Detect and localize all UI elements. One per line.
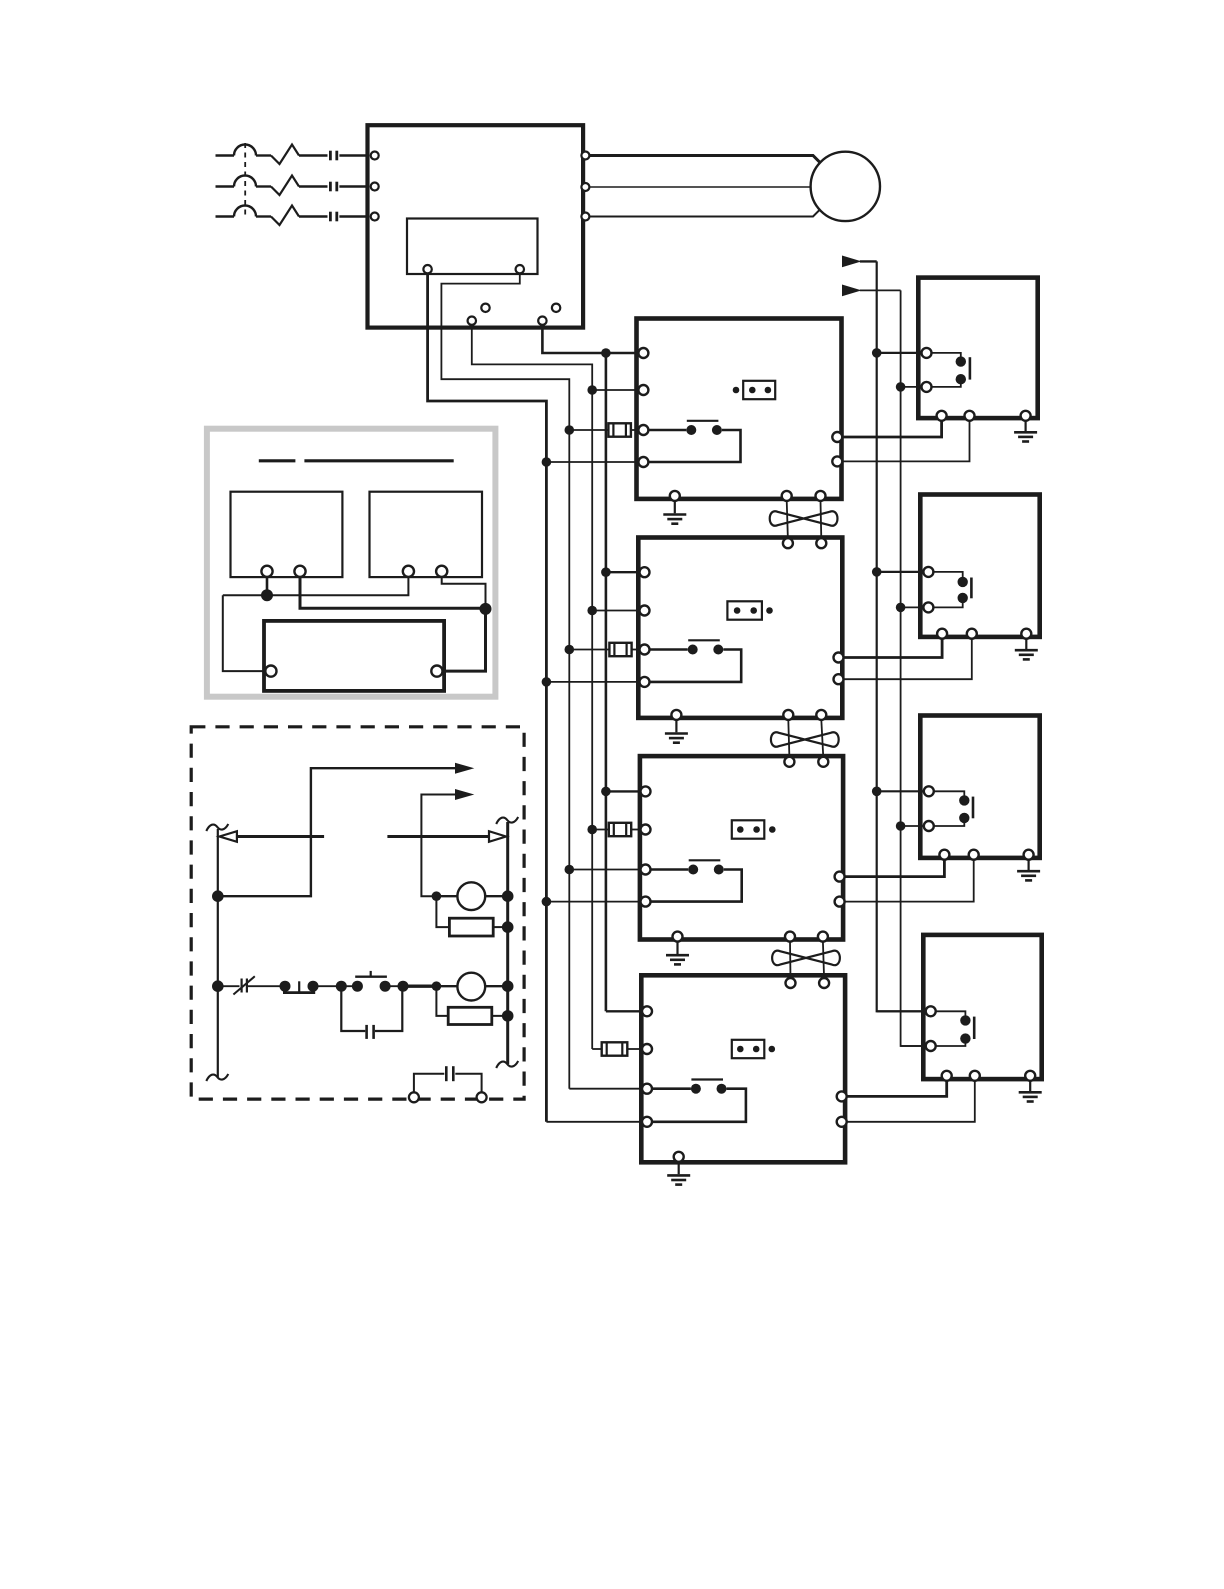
switch contact Z3 <box>688 860 724 874</box>
zone controller box Z1 <box>637 319 842 499</box>
wire Z1 switch loop to T4 <box>648 430 741 462</box>
wire bus to Z4 T1 <box>606 1010 643 1012</box>
address jumper block Z4 <box>732 1040 775 1058</box>
wire S3 B2 to zone R2 <box>844 859 974 902</box>
outgoing signal arrow B (filled) <box>455 789 474 800</box>
comm wire pair zone 2 to zone 3 <box>788 720 823 758</box>
drive input terminal <box>371 183 379 191</box>
wire arrow 2 to sensor bus B <box>860 289 901 291</box>
comm terminal Z1-B2 <box>782 491 792 501</box>
relay coil M1 <box>457 882 485 910</box>
terminal Z1-T4 <box>638 457 648 467</box>
ground (sensor S3) <box>1017 859 1040 880</box>
junction Z1 T2 <box>587 385 597 395</box>
terminal Z2-T4 <box>640 677 650 687</box>
wire S1 B2 to zone R2 <box>842 420 970 461</box>
sensor box S1 <box>918 278 1037 419</box>
wire resistor 2 branch <box>436 986 448 1016</box>
bus wire 2 (drive board to zone T3 rail) <box>441 273 569 1088</box>
comm terminal Z4-topB <box>819 978 829 988</box>
wire bus to Z4 T2 <box>592 1048 602 1050</box>
contactor contact L2 <box>330 182 336 192</box>
wire bus to Z3 T2 <box>592 829 609 831</box>
terminal S3-B2 <box>969 850 979 860</box>
contactor contact L3 <box>330 212 336 222</box>
inset component box A <box>231 492 343 577</box>
wire drive to motor phase 1 <box>590 156 823 165</box>
sensor bus A (vertical) <box>877 261 925 1011</box>
terminal S1-L1 <box>922 348 932 358</box>
wire fuse to terminal Z2 <box>632 649 641 651</box>
junction Z3 T2 <box>587 825 597 835</box>
zone controller box Z3 <box>640 756 843 939</box>
terminal Z4-R2 <box>837 1117 847 1127</box>
terminal S2-B2 <box>967 629 977 639</box>
terminal Z1-R1 <box>832 432 842 442</box>
control circuit boundary (dashed) <box>191 727 524 1099</box>
ground terminal S1 <box>1021 411 1031 421</box>
ground terminal S4 <box>1025 1071 1035 1081</box>
wire drive to motor phase 3 <box>590 207 823 216</box>
motor drive box U1 <box>368 125 584 327</box>
wire contact 2 to coil 2 node <box>403 985 436 988</box>
wire contact to drive terminal L1 <box>339 154 367 156</box>
ground (sensor S2) <box>1015 638 1038 659</box>
inset terminal B2 <box>436 566 447 577</box>
terminal Z1-T1 <box>638 348 648 358</box>
junction resistor 1 rail <box>502 921 514 933</box>
junction Z2 T4 <box>542 677 552 687</box>
wire bus B to S3 L2 <box>901 825 925 827</box>
junction coil 1 input <box>432 891 442 901</box>
wire bus to Z2 T4 <box>546 681 640 683</box>
ground (sensor S1) <box>1014 420 1037 441</box>
sensor switch contact S4 <box>960 1015 974 1044</box>
fuse (F3) <box>609 823 631 836</box>
ground terminal Z2 <box>671 710 681 720</box>
wire S4 B2 to zone R2 <box>846 1080 975 1122</box>
terminal S4-B2 <box>970 1071 980 1081</box>
comm terminal Z4-topA <box>786 978 796 988</box>
left rail break (bottom) <box>206 1074 228 1081</box>
ground terminal Z1 <box>670 491 680 501</box>
wire bus to Z3 T4 <box>546 901 641 903</box>
junction right rail rung 3 <box>502 980 514 992</box>
wire drive to motor phase 2 <box>590 186 811 188</box>
terminal Z3-T1 <box>641 786 651 796</box>
breaker mechanical link (dashed) <box>244 143 246 215</box>
inset component box B <box>370 492 483 577</box>
drive output terminal <box>581 152 589 160</box>
address jumper block Z2 <box>727 601 772 619</box>
terminal Z4-T1 <box>642 1006 652 1016</box>
terminal S1-B2 <box>965 411 975 421</box>
circuit breaker pole L2 (arc) <box>216 176 272 187</box>
comm terminal Z2-B2 <box>783 710 793 720</box>
terminal Z3-R2 <box>835 897 845 907</box>
junction resistor 2 rail <box>502 1010 514 1022</box>
control board terminal <box>516 265 524 273</box>
sensor switch contact S3 <box>959 795 973 823</box>
terminal Z3-T4 <box>641 897 651 907</box>
wire Z3 switch loop to T4 <box>650 870 742 902</box>
junction Z2 T2 <box>587 606 597 616</box>
junction Z3 T4 <box>542 897 552 907</box>
wire node to C1 <box>223 595 266 671</box>
switch contact Z2 <box>688 640 724 654</box>
terminal S4-B1 <box>942 1071 952 1081</box>
terminal S3-L2 <box>924 821 934 831</box>
ground (zone Z4) <box>667 1161 690 1185</box>
wire A2 to right node <box>300 577 486 609</box>
wire bus A to S2 L1 <box>877 571 925 573</box>
junction Z2 T1 <box>601 567 611 577</box>
wire bus B corner to S4 L2 <box>901 1045 927 1047</box>
detail inset panel (gray frame) <box>207 429 496 697</box>
junction bus A sensor S2 <box>872 567 882 577</box>
title underline short <box>259 459 296 462</box>
zone controller box Z2 <box>638 538 842 718</box>
comm terminal Z3-topB <box>818 757 828 767</box>
terminal Z2-R2 <box>834 674 844 684</box>
inset terminal C2 <box>431 666 442 677</box>
drive bottom relay terminal pair 2 <box>538 304 560 325</box>
control board terminal <box>423 265 431 273</box>
resistor R2 <box>448 1007 492 1024</box>
twisted pair (link 1-2) <box>770 511 838 526</box>
junction node A1 <box>261 589 273 601</box>
sensor switch contact S2 <box>958 577 972 603</box>
wire S4 L2 to contact <box>935 1043 965 1046</box>
junction right rail rung 2 <box>502 890 514 902</box>
sensor box S4 <box>923 935 1041 1079</box>
wire Z3 T3 to switch <box>650 868 688 871</box>
title underline long <box>304 459 453 462</box>
overload element L2 (zigzag) <box>271 176 299 196</box>
comm terminal Z2-topB <box>816 538 826 548</box>
wire S3 B1 to zone R1 <box>844 859 945 877</box>
wire resistor 1 to rail <box>493 926 508 928</box>
terminal S2-L2 <box>923 602 933 612</box>
comm terminal Z1-B3 <box>816 491 826 501</box>
wire Z2 T3 to switch <box>649 648 688 651</box>
circuit breaker pole L3 (arc) <box>216 206 272 217</box>
wire bus to Z2 T3 <box>569 649 609 651</box>
motor M <box>811 152 880 221</box>
terminal S3-B1 <box>939 850 949 860</box>
wire coil 1 leads <box>436 895 457 897</box>
wire S2 B1 to zone R1 <box>843 638 942 658</box>
terminal S4-L2 <box>926 1041 936 1051</box>
wire Z4 switch loop to T4 <box>651 1089 746 1122</box>
terminal S2-B1 <box>937 629 947 639</box>
fuse (F1) <box>608 423 631 436</box>
terminal Z1-R2 <box>832 456 842 466</box>
junction Z1 T3 <box>565 425 575 435</box>
overload element L1 (zigzag) <box>271 145 299 165</box>
wire bus to Z1 T2 <box>592 389 639 391</box>
terminal Z2-T1 <box>640 567 650 577</box>
wire Z2 switch loop to T4 <box>649 650 741 682</box>
address jumper block Z3 <box>732 820 776 838</box>
terminal S1-L2 <box>922 382 932 392</box>
wire bus to Z4 T3 <box>569 1088 643 1090</box>
wire right arrow stub <box>387 835 489 838</box>
ground (zone Z1) <box>663 500 686 524</box>
left power rail <box>217 829 219 1077</box>
wire rung 3 start <box>218 985 240 987</box>
wire S2 L2 to contact <box>933 602 963 608</box>
wire fuse to terminal Z4 <box>627 1048 643 1050</box>
junction right node <box>480 603 492 615</box>
ground terminal S3 <box>1024 850 1034 860</box>
wire S1 L1 to contact <box>931 353 961 358</box>
terminal S4-L1 <box>926 1006 936 1016</box>
terminal Z4-T2 <box>642 1044 652 1054</box>
junction Z3 T1 <box>601 787 611 797</box>
junction bus A sensor S3 <box>872 787 882 797</box>
wire left arrow stub <box>237 835 324 838</box>
wire S2 L1 to contact <box>933 572 963 578</box>
terminal Z2-R1 <box>834 653 844 663</box>
inset component box C <box>264 621 444 691</box>
inset terminal B1 <box>403 566 414 577</box>
ground (zone Z2) <box>665 719 688 743</box>
wire Z4 T3 to switch <box>651 1087 691 1090</box>
terminal Z4-R1 <box>837 1091 847 1101</box>
wire S1 B1 to zone R1 <box>842 420 942 437</box>
junction left rail rung 3 <box>212 980 224 992</box>
wire S4 L1 to contact <box>935 1011 965 1016</box>
contactor contact L1 <box>330 151 336 161</box>
wire fuse to terminal Z1 <box>631 429 640 431</box>
right rail break (bottom) <box>496 1061 518 1068</box>
incoming line arrow (open, right) <box>489 831 506 842</box>
capacitor terminal left <box>409 1092 419 1102</box>
fuse (F2) <box>609 643 631 656</box>
wire A1 down to node <box>266 577 269 596</box>
junction Z1 T4 <box>542 457 552 467</box>
junction Z1 T1 <box>601 348 611 358</box>
bypass capacitor branch <box>341 991 402 1039</box>
drive bottom relay terminal pair 1 <box>468 304 490 325</box>
terminal Z3-T3 <box>641 865 651 875</box>
wire bus to Z4 T4 <box>546 1121 643 1123</box>
address jumper block Z1 <box>733 381 776 399</box>
junction left rail rung 2 <box>212 890 224 902</box>
switch contact Z1 <box>686 421 722 435</box>
drive control board (inner module) <box>407 219 538 275</box>
comm wire pair zone 3 to zone 4 <box>790 941 824 979</box>
twisted pair (link 3-4) <box>772 951 840 966</box>
sensor box S2 <box>920 495 1039 637</box>
left rail break (top) <box>206 824 228 831</box>
wire resistor 2 to rail <box>492 1015 508 1017</box>
wire bus to Z1 T3 <box>569 429 608 431</box>
twisted pair (link 2-3) <box>771 732 839 747</box>
junction bus B sensor S3 <box>896 821 906 831</box>
sensor switch contact S1 <box>956 356 970 384</box>
contact K2 (push-button, bar above) <box>336 971 409 992</box>
ground terminal S2 <box>1021 629 1031 639</box>
auxiliary capacitor C1 <box>414 1066 482 1092</box>
wire arrow 1 to sensor bus A <box>860 260 877 262</box>
ground (sensor S4) <box>1019 1080 1042 1101</box>
bus wire 3 (drive relay to zone T2 rail) <box>472 325 592 1049</box>
zone controller box Z4 <box>641 975 845 1162</box>
terminal S1-B1 <box>937 411 947 421</box>
wire contact 1 to contact 2 <box>313 985 341 987</box>
junction Z2 T3 <box>565 645 575 655</box>
wire right node to C2 <box>442 608 485 671</box>
wire bus A to S1 L1 <box>877 352 923 354</box>
wire bus to Z1 T4 <box>546 461 639 463</box>
wire node row to B1 <box>223 577 409 596</box>
junction bus B sensor S1 <box>896 382 906 392</box>
wire fuse to terminal Z3 <box>631 829 641 831</box>
wire S4 B1 to zone R1 <box>846 1080 947 1096</box>
overload element L3 (zigzag) <box>271 206 299 226</box>
wire bus to Z1 T1 <box>606 352 640 354</box>
remote signal arrow 1 <box>843 256 860 266</box>
terminal S3-L1 <box>924 786 934 796</box>
fuse (F4) <box>602 1042 628 1055</box>
terminal S2-L1 <box>923 567 933 577</box>
comm terminal Z3-B2 <box>785 932 795 942</box>
terminal Z3-T2 <box>641 825 651 835</box>
remote signal arrow 2 <box>843 285 860 295</box>
contact K1 (bar below) <box>280 981 319 993</box>
junction Z3 T3 <box>565 865 575 875</box>
wire contact to drive terminal L3 <box>339 215 367 217</box>
wire S1 L2 to contact <box>931 383 961 387</box>
thermostat element (slashed capacitor) <box>233 976 254 994</box>
comm terminal Z3-B3 <box>818 932 828 942</box>
terminal Z2-T3 <box>640 645 650 655</box>
relay coil M2 <box>457 973 485 1001</box>
inset terminal A1 <box>261 566 272 577</box>
wire bus A corner to S4 L1 <box>877 1010 927 1012</box>
outgoing signal arrow A (filled) <box>455 763 474 774</box>
incoming line arrow (open, left) <box>219 831 237 842</box>
terminal Z3-R1 <box>835 872 845 882</box>
wire contact to drive terminal L2 <box>339 185 367 187</box>
wire Z1 T3 to switch <box>648 429 687 432</box>
junction bus A sensor S1 <box>872 348 882 358</box>
wire bus to Z2 T2 <box>592 610 640 612</box>
circuit breaker pole L1 (arc) <box>216 145 272 156</box>
switch contact Z4 <box>691 1080 727 1094</box>
terminal Z2-T2 <box>640 606 650 616</box>
comm terminal Z3-topA <box>784 757 794 767</box>
wire coil 1 node to arrow B <box>421 795 455 897</box>
wire S2 B2 to zone R2 <box>843 638 972 679</box>
sensor bus B (vertical) <box>901 290 925 1046</box>
wire rung 2 to arrow A <box>218 768 455 896</box>
comm terminal Z2-topA <box>783 538 793 548</box>
wire bus to Z2 T1 <box>606 571 641 573</box>
wire coil 2 leads <box>436 985 457 987</box>
ground terminal Z3 <box>673 932 683 942</box>
wire bus to Z3 T1 <box>606 790 642 792</box>
terminal Z4-T3 <box>642 1084 652 1094</box>
right power rail <box>506 822 509 1064</box>
inset terminal C1 <box>265 666 276 677</box>
terminal Z4-T4 <box>642 1117 652 1127</box>
wire bus B to S2 L2 <box>901 606 925 608</box>
right rail break (top) <box>496 817 518 824</box>
terminal Z1-T3 <box>638 425 648 435</box>
drive input terminal <box>371 152 379 160</box>
wire B2 to right node <box>442 577 486 609</box>
drive output terminal <box>581 183 589 191</box>
wire resistor 1 branch <box>436 896 449 927</box>
wire to contact 1 <box>248 985 283 987</box>
wire bus to Z3 T3 <box>569 869 641 871</box>
wire bus B to S1 L2 <box>901 386 923 388</box>
comm wire pair zone 1 to zone 2 <box>787 501 822 540</box>
wire bus A to S3 L1 <box>877 790 925 792</box>
ground (zone Z3) <box>666 941 689 965</box>
capacitor terminal right <box>477 1092 487 1102</box>
junction bus B sensor S2 <box>896 603 906 613</box>
bus wire 4 (drive relay to zone T1 rail) <box>542 325 606 1011</box>
resistor R1 <box>449 918 493 936</box>
junction coil 2 input <box>432 981 442 991</box>
terminal Z1-T2 <box>638 385 648 395</box>
sensor box S3 <box>920 716 1039 858</box>
drive output terminal <box>581 213 589 221</box>
ground terminal Z4 <box>674 1152 684 1162</box>
bus wire 1 (drive board to zone T4 rail) <box>428 273 547 1121</box>
comm terminal Z2-B3 <box>816 710 826 720</box>
wire S3 L1 to contact <box>933 791 964 796</box>
inset terminal A2 <box>294 566 305 577</box>
drive input terminal <box>371 213 379 221</box>
wire S3 L2 to contact <box>933 822 964 826</box>
